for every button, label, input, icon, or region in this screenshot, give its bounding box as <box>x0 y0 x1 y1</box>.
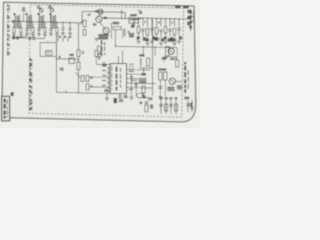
value label <box>170 38 174 40</box>
transistor Q1 <box>96 16 102 22</box>
wire: to detector <box>152 20 154 97</box>
junction dots on IF bus <box>20 21 21 22</box>
jack J1 <box>137 93 144 98</box>
speaker terminal strip <box>190 9 192 31</box>
resistor R1 <box>83 20 86 27</box>
value label <box>143 38 147 40</box>
component inside block <box>46 51 53 56</box>
border frame of schematic sheet <box>2 2 196 122</box>
wire <box>77 56 79 62</box>
capacitor C31 <box>141 73 145 75</box>
labels right-bottom <box>184 97 189 98</box>
ground under Q2 <box>95 39 99 42</box>
resistor R3 (horizontal) <box>113 27 121 30</box>
wire: IC top to AGC <box>122 51 124 64</box>
IF transformer T4 <box>50 15 53 29</box>
resistor R20 <box>95 50 98 56</box>
labels under Q4 <box>177 86 183 89</box>
IC right pins + wires <box>127 69 150 72</box>
resistor R9 <box>155 28 158 34</box>
labels near Q3 <box>154 38 160 40</box>
branch component 0 <box>160 100 162 115</box>
capacitor C15 <box>168 29 172 31</box>
pin numbers inside IC <box>111 66 113 90</box>
relay block K1 <box>40 43 56 57</box>
resistor R19 <box>77 62 80 70</box>
IC U1 HA1156W <box>110 64 126 94</box>
capacitor C17 <box>177 28 181 30</box>
resistor R21 <box>147 58 150 66</box>
wire <box>139 67 152 69</box>
wire: bottom rail left <box>56 92 108 93</box>
tap tick <box>65 90 67 92</box>
capacitor C13 <box>159 30 163 32</box>
wire: branch 9 <box>174 19 176 27</box>
wire: branch 1 <box>138 18 140 27</box>
wire: bias network <box>110 23 112 39</box>
label Q1 <box>104 17 108 18</box>
capacitor C0 leftmost <box>13 28 15 33</box>
vertical jack labels <box>184 62 186 95</box>
resistor R23 <box>159 72 162 80</box>
value label <box>164 37 167 39</box>
wire: branch 2 <box>142 18 144 26</box>
capacitor C4 <box>38 23 40 28</box>
wire: branch 6 <box>160 19 162 27</box>
wire: dial lamp feed <box>82 11 125 12</box>
wire <box>95 56 97 64</box>
wire: B+ rail <box>128 18 191 20</box>
switch S1 contacts <box>12 36 15 39</box>
value label <box>152 37 155 39</box>
wire: AGC line <box>114 30 116 47</box>
capacitor C7b stub <box>69 23 71 27</box>
wire loop above detector <box>164 56 176 58</box>
wire to boundary <box>176 80 183 82</box>
trimmer capacitor CT1 with value label <box>37 6 41 8</box>
capacitor C35 <box>135 79 137 97</box>
stacked RC pairs <box>81 76 84 82</box>
value label <box>154 38 158 40</box>
wire: volume feed <box>77 23 79 50</box>
resistor R4 (horizontal) <box>129 20 139 23</box>
labels above <box>142 97 146 98</box>
jumper diagonal <box>76 73 81 78</box>
IC left pins <box>107 67 110 69</box>
IF transformer T1 <box>14 15 17 29</box>
wire: branch 10 <box>178 19 180 27</box>
wire lamp to Q1 <box>99 15 100 17</box>
pin labels left <box>102 65 107 67</box>
capacitor C6 <box>50 23 52 28</box>
vertical control labels <box>101 40 103 56</box>
value label <box>136 37 140 39</box>
chassis dashed boundary box <box>29 5 184 118</box>
inspection stamp box <box>2 96 10 121</box>
polarity mark <box>139 102 143 104</box>
labels under Q2 <box>98 35 109 39</box>
wires under Q4 <box>159 80 161 96</box>
resistor R30 <box>145 105 148 112</box>
resistor R2 <box>83 30 86 36</box>
capacitor C7 <box>56 23 58 28</box>
capacitor C33 <box>130 64 133 70</box>
label row DET <box>162 58 168 59</box>
capacitor C34 <box>130 74 132 96</box>
switch wiper arms <box>18 36 28 38</box>
wire: to IC pin 3 <box>89 76 107 78</box>
caption text (rotated): Fig. 3 Schematic wiring diagram <box>7 4 9 13</box>
coil L2 <box>140 58 141 66</box>
wire: branch 3 <box>147 18 149 26</box>
label lamp <box>95 11 98 12</box>
section label FM TUNER <box>175 7 181 8</box>
branch component 2 <box>170 100 172 115</box>
wire: branch 7 <box>165 19 167 27</box>
resistor R18 <box>77 50 80 56</box>
resistor R13 <box>173 28 176 34</box>
wire value labels <box>129 70 134 72</box>
electrolytic capacitor C36 (dark) <box>114 98 118 103</box>
resistor R22 <box>142 86 145 93</box>
label above Q1 <box>87 13 90 16</box>
branch component 3 <box>175 100 177 115</box>
transistor Q3 <box>168 48 174 54</box>
comb left value labels <box>129 34 135 37</box>
labels <box>139 79 147 83</box>
wire: switch row <box>12 37 28 39</box>
trimmer capacitor CT2 with value label <box>48 6 52 8</box>
wire: Q3 collector feed <box>143 46 177 49</box>
wire: down left rail <box>77 70 79 93</box>
capacitor C2 <box>26 23 28 28</box>
branch component 1 <box>165 100 167 115</box>
capacitor C5 <box>44 23 46 28</box>
IF transformer T3 <box>38 15 41 29</box>
wire: stage bus <box>102 17 141 20</box>
resistor R17 <box>166 47 169 57</box>
resistor R7 <box>146 28 149 34</box>
wire: block to junction <box>55 37 57 93</box>
capacitor C1 <box>20 23 22 28</box>
tick terminal <box>121 10 123 14</box>
resistor R5 <box>137 27 140 33</box>
labels <box>167 87 175 90</box>
oscillator coil L3 <box>133 19 136 27</box>
coil L1 <box>124 29 125 37</box>
value label <box>179 37 183 39</box>
wire: to IC pin 5 <box>89 86 107 89</box>
transistor Q2 <box>103 28 109 34</box>
vertical model text column <box>29 58 31 70</box>
capacitor C32 <box>158 87 162 89</box>
resistor R40 <box>98 46 101 54</box>
label R3 <box>113 22 120 23</box>
capacitor C9 <box>141 29 145 31</box>
wire: left pin rail <box>108 68 110 94</box>
antenna terminal <box>12 20 14 22</box>
value label <box>173 39 177 41</box>
transistor Q4 <box>169 78 175 84</box>
capacitor C11 <box>150 28 154 30</box>
dial lamp PL1 <box>98 9 103 14</box>
IF transformer T2 <box>26 15 29 29</box>
capacitor C30 under IC <box>118 96 122 98</box>
value label <box>161 39 165 41</box>
wire: branch 8 <box>169 19 171 27</box>
capacitor C7a stub <box>62 23 64 27</box>
wire: branch 5 <box>156 18 158 26</box>
terminals far right bottom <box>187 100 189 112</box>
label +B <box>60 68 64 70</box>
resistor R11 <box>164 27 167 33</box>
label above T1 <box>22 8 26 11</box>
capacitor C3 <box>32 23 34 28</box>
ground cluster <box>106 94 108 98</box>
ground <box>129 97 133 100</box>
wire Q1 to Q2 <box>100 22 105 27</box>
value label <box>145 39 149 41</box>
resistor R24 <box>164 72 167 80</box>
resistor R25 <box>176 60 179 67</box>
electrolytic C40 <box>146 97 149 98</box>
arrow pointer <box>138 10 143 14</box>
capacitor C20 <box>103 62 105 67</box>
capacitor C18 <box>69 58 75 64</box>
wire: IF strip bus <box>13 21 79 23</box>
wire: branch 4 <box>151 18 153 26</box>
coil tap hooks <box>58 37 60 42</box>
